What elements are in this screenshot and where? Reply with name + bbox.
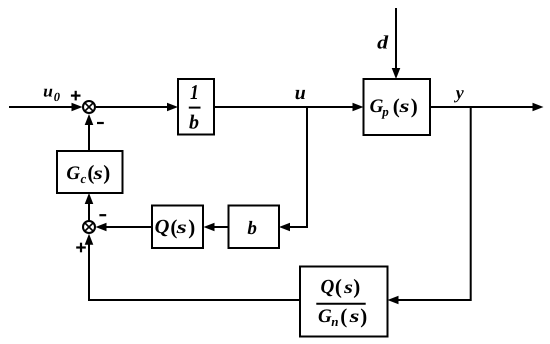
svg-text:): ) xyxy=(103,161,110,185)
svg-text:Q: Q xyxy=(321,276,335,298)
svg-text:): ) xyxy=(188,215,195,239)
svg-text:0: 0 xyxy=(54,90,61,104)
svg-text:s: s xyxy=(343,277,353,297)
svg-text:n: n xyxy=(331,314,338,329)
svg-text:p: p xyxy=(381,104,389,119)
svg-text:Q: Q xyxy=(155,216,170,238)
svg-text:c: c xyxy=(81,171,87,186)
svg-text:s: s xyxy=(348,306,359,326)
svg-text:b: b xyxy=(247,218,257,239)
svg-text:G: G xyxy=(66,163,80,184)
svg-text:s: s xyxy=(398,96,409,116)
svg-text:d: d xyxy=(377,32,389,53)
svg-text:): ) xyxy=(411,94,418,118)
svg-text:1: 1 xyxy=(190,80,199,104)
svg-text:y: y xyxy=(454,83,465,103)
svg-text:s: s xyxy=(92,163,103,183)
svg-text:(: ( xyxy=(340,304,347,328)
svg-text:s: s xyxy=(175,217,187,237)
svg-text:(: ( xyxy=(335,275,342,299)
svg-text:G: G xyxy=(318,306,332,327)
svg-text:b: b xyxy=(189,112,199,134)
svg-text:): ) xyxy=(360,304,367,328)
svg-text:u: u xyxy=(295,82,306,104)
svg-text:): ) xyxy=(353,275,360,299)
svg-text:u: u xyxy=(43,82,53,101)
